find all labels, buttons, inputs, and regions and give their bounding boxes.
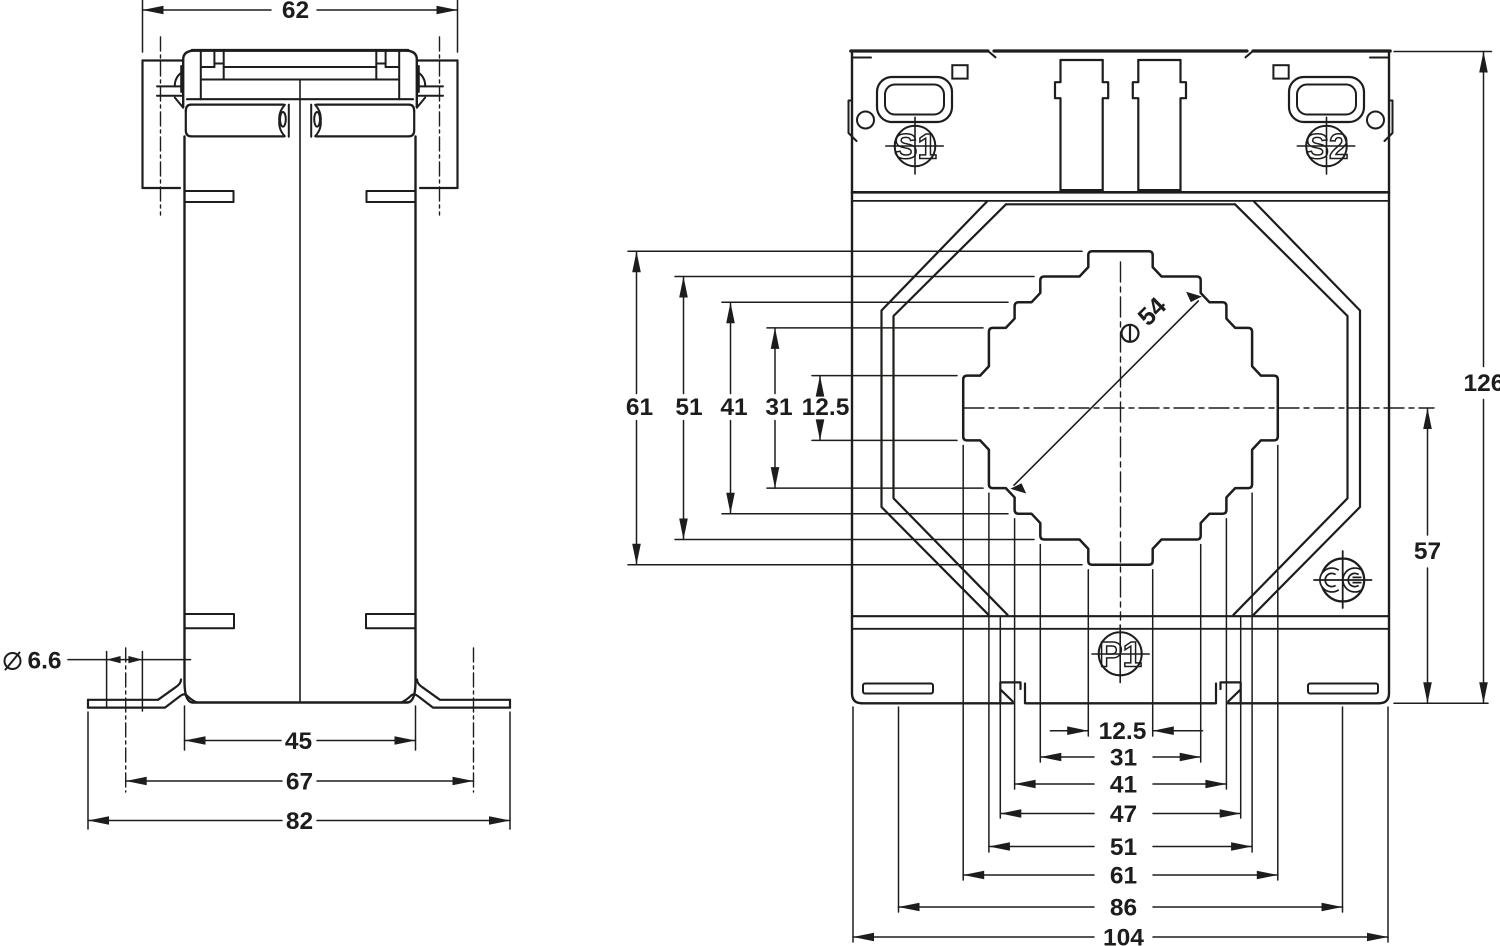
front view: body top edge (thick) with cover seam notches xyxy=(851,49,988,52)
svg-text:82: 82 xyxy=(286,808,313,835)
svg-text:86: 86 xyxy=(1110,894,1137,921)
front view: primary busbar terminal right xyxy=(1133,60,1139,192)
left view: bracket inner edge stubs xyxy=(180,66,182,92)
svg-text:126: 126 xyxy=(1464,370,1500,397)
svg-text:47: 47 xyxy=(1110,801,1137,828)
front view: small square marker right xyxy=(1273,65,1288,78)
front view: left dimension extension lines xyxy=(628,250,1082,252)
left view: center clamp pocket right xyxy=(315,105,321,136)
front view: body right edge xyxy=(1379,51,1389,703)
left view: left mounting bracket xyxy=(141,61,143,189)
svg-text:12.5: 12.5 xyxy=(1099,718,1147,745)
front view: bottom extension lines from window corners xyxy=(1087,570,1089,736)
left view: coil drum top xyxy=(186,105,284,111)
left view: dimension 62 line and arrows xyxy=(143,9,272,11)
front view: primary busbar terminal left xyxy=(1055,60,1061,192)
left view: cap screw slot left xyxy=(213,50,215,67)
svg-text:62: 62 xyxy=(282,0,309,24)
front view: terminal S1 circle and crosshair xyxy=(895,126,936,167)
front view: P1 circle and crosshair xyxy=(1099,632,1142,675)
front view: vertical dimension lines 61 51 41 31 12.5 with arrows and labels xyxy=(636,251,638,393)
svg-text:S2: S2 xyxy=(1306,128,1349,167)
left view: dimension 6.6 line and arrows xyxy=(68,659,191,661)
front view: octagon rib outer left xyxy=(882,202,989,615)
left view: lower side notch right xyxy=(366,614,416,628)
svg-text:67: 67 xyxy=(286,769,313,796)
svg-text:45: 45 xyxy=(285,728,312,755)
svg-text:12.5: 12.5 xyxy=(802,394,850,421)
front view: secondary terminal slot S2 inner xyxy=(1297,85,1356,115)
svg-text:41: 41 xyxy=(1110,771,1137,798)
front view: dimension 126 line and arrows xyxy=(1483,52,1485,367)
front view: top corner shoulder lines xyxy=(852,57,871,59)
left view: side clamp screw left xyxy=(175,72,183,87)
front view: diameter 54 text xyxy=(1114,292,1172,350)
front view: bottom band upper edge lines xyxy=(852,615,1389,617)
left view: foot hole centerline left xyxy=(125,648,127,792)
svg-text:57: 57 xyxy=(1414,538,1441,565)
left view: dimension 45 extension lines xyxy=(184,706,186,750)
left view: side rib tab right xyxy=(367,191,416,202)
left view: dimension 82 extension lines xyxy=(87,712,89,829)
left view: cap bottom shelf xyxy=(187,98,413,100)
svg-text:61: 61 xyxy=(626,394,653,421)
front view: window horizontal centerline xyxy=(964,407,1434,409)
front view: terminal band lower edge lines xyxy=(852,191,1389,194)
left view: body left side xyxy=(185,136,194,702)
front view: body bottom edge with clip openings xyxy=(862,702,1013,704)
front view: body left edge xyxy=(852,51,862,703)
front view: octagon rib outer right xyxy=(1254,202,1361,615)
front view: bottom foot pad right xyxy=(1308,684,1378,694)
front view: secondary terminal slot S1 inner xyxy=(885,85,944,115)
front view: CE mark crosshair xyxy=(1342,551,1344,608)
left view: dimension 62 extension lines xyxy=(142,0,144,52)
left view: coil drum sides and bottom xyxy=(186,111,284,136)
front view: bottom foot pad left xyxy=(863,684,933,694)
left view: dimension 67 line and arrows xyxy=(126,780,282,782)
left view: foot hole centerline right xyxy=(473,648,475,792)
left view: dimension 45 line and arrows xyxy=(185,740,282,742)
front view: octagon rib inner left xyxy=(894,204,1008,615)
front view: octagon rib inner top edge xyxy=(1006,203,1235,205)
left view: body bottom edge xyxy=(193,701,407,703)
front view: left edge tab and hole xyxy=(849,101,857,142)
left view: bracket centerline right xyxy=(439,37,441,215)
left view: terminal cap outer profile xyxy=(183,50,417,107)
front view: DIN rail clip slot left xyxy=(1000,682,1020,703)
left view: right mounting bracket xyxy=(456,61,458,189)
front view: CE mark circle xyxy=(1321,559,1364,602)
svg-text:41: 41 xyxy=(720,394,747,421)
left view: cap plate line upper xyxy=(201,66,215,68)
left view: mounting foot right xyxy=(417,680,510,700)
front view: stepped core window outline xyxy=(963,251,1278,564)
svg-text:51: 51 xyxy=(1110,834,1137,861)
svg-text:31: 31 xyxy=(1110,744,1137,771)
left view: cap plate line lower xyxy=(202,79,398,81)
front view: terminal S2 circle and crosshair xyxy=(1306,126,1347,167)
left view: dimension 82 line and arrows xyxy=(88,820,282,822)
front view: window vertical centerline xyxy=(1120,262,1122,620)
left view: terminal cap top edge (thick) xyxy=(192,49,408,52)
left view: body right side xyxy=(407,136,416,702)
front view: CE logo glyph E (hollow) xyxy=(1346,571,1362,590)
left view: cap screw slot right xyxy=(385,50,387,67)
front view: octagon rib inner right xyxy=(1234,204,1348,615)
left view: mounting foot left xyxy=(88,680,181,700)
front view: DIN rail clip slot right xyxy=(1221,682,1241,703)
svg-text:31: 31 xyxy=(765,394,792,421)
left view: body center seam line xyxy=(299,81,301,702)
left view: side clamp screw right xyxy=(417,72,425,87)
svg-text:P1: P1 xyxy=(1099,635,1142,674)
left view: center clamp pocket left xyxy=(279,105,285,136)
svg-text:104: 104 xyxy=(1103,924,1144,946)
left view: side rib tab left xyxy=(185,191,234,202)
left view: dimension 6.6 extension lines xyxy=(106,652,108,709)
left view: lower side notch left xyxy=(185,614,235,628)
front view: dimension 57 line and arrows xyxy=(1427,408,1429,535)
svg-text:S1: S1 xyxy=(894,128,937,167)
front view: dimension 126 extension lines xyxy=(1394,51,1492,53)
front view: CE logo glyph C (hollow) xyxy=(1323,571,1338,590)
left view: bracket centerline left xyxy=(160,37,162,215)
front view: extension lines for 47 86 104 xyxy=(999,617,1001,818)
svg-text:61: 61 xyxy=(1110,862,1137,889)
front view: secondary terminal slot S2 outer xyxy=(1289,77,1364,122)
front view: secondary terminal slot S1 outer xyxy=(877,77,952,122)
front view: diameter 54 dimension arrow xyxy=(1014,301,1198,485)
front view: bottom dimension 12.5 (outside arrows) xyxy=(1050,730,1088,732)
front view: right edge tab and hole xyxy=(1385,101,1393,142)
front view: bottom dimension lines 31 41 47 51 61 86 104 xyxy=(1040,756,1094,758)
left view: cap inner walls xyxy=(200,50,202,99)
svg-text:51: 51 xyxy=(675,394,702,421)
front view: small square marker left xyxy=(952,65,967,78)
svg-text:6.6: 6.6 xyxy=(27,648,61,675)
left view: diameter symbol 6.6 xyxy=(5,653,21,669)
